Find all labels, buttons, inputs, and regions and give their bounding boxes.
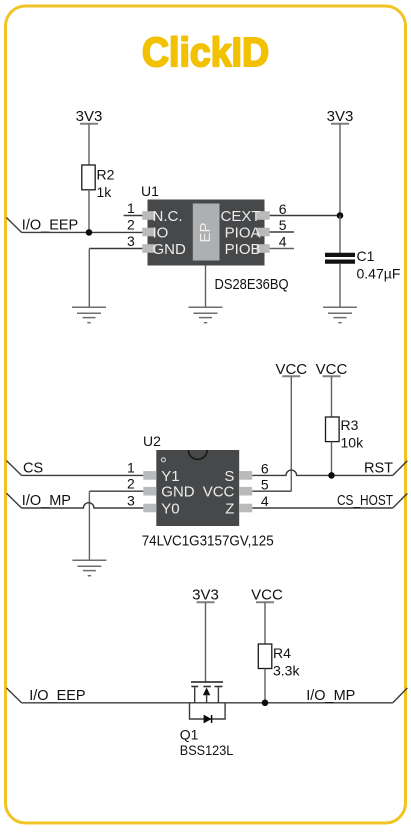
svg-text:74LVC1G3157GV,125: 74LVC1G3157GV,125: [142, 532, 274, 549]
capacitor C1: [325, 248, 400, 281]
svg-text:PIOA: PIOA: [225, 224, 261, 241]
wire EP to ground: [205, 266, 207, 308]
pin1 marker dot U2: [161, 458, 165, 462]
svg-text:1: 1: [127, 200, 135, 216]
wire I/O_EEP to I/O_MP main line: [22, 702, 393, 704]
svg-text:4: 4: [261, 493, 269, 509]
svg-text:GND: GND: [153, 241, 187, 258]
node I/O_MP (left label, section 2): [7, 493, 71, 509]
svg-text:Y1: Y1: [161, 468, 179, 485]
ground (left, section 1): [72, 307, 106, 322]
ground (C1, section 1): [323, 307, 357, 322]
wire I/O_EEP to U1 pin 2: [22, 231, 143, 233]
op-amp U1 body DS28E36BQ: [141, 183, 265, 266]
svg-text:RST: RST: [364, 460, 393, 476]
svg-text:U2: U2: [143, 433, 161, 449]
pin pads U1 right: [257, 211, 270, 253]
svg-text:R2: R2: [97, 167, 115, 183]
node I/O_MP (right label, section 3): [306, 688, 407, 704]
power 3V3 (right, section 1): [327, 108, 354, 125]
pin 1 stub U1: [124, 200, 143, 216]
EP pad U1: [193, 204, 220, 261]
svg-text:EP: EP: [197, 222, 214, 242]
svg-text:6: 6: [261, 461, 269, 477]
svg-text:3: 3: [127, 233, 135, 249]
svg-text:4: 4: [279, 234, 287, 250]
svg-text:2: 2: [127, 217, 135, 233]
svg-text:DS28E36BQ: DS28E36BQ: [215, 276, 289, 293]
svg-text:CS_HOST: CS_HOST: [337, 493, 393, 509]
pin 3 wire U1 to ground: [89, 233, 142, 307]
node RST (right label, section 2): [364, 460, 407, 476]
U1 pin names: [153, 208, 261, 258]
node I/O_EEP (left label, section 1): [7, 218, 79, 234]
junction dot R3 / RST: [328, 472, 335, 479]
svg-text:GND: GND: [161, 484, 195, 501]
svg-text:3V3: 3V3: [192, 587, 219, 604]
power VCC (right, section 2): [316, 361, 348, 378]
transistor Q1 drain lead: [194, 687, 196, 703]
wire 3V3 to R2: [88, 124, 90, 166]
svg-text:1k: 1k: [97, 184, 113, 200]
svg-text:2: 2: [127, 476, 135, 492]
pin 4 stub U1: [270, 234, 294, 250]
svg-text:Y0: Y0: [161, 500, 179, 517]
resistor R3: [326, 417, 365, 451]
svg-text:U1: U1: [141, 183, 159, 199]
svg-text:CS: CS: [23, 460, 43, 476]
wire U2 pin 6 to RST with hop: [252, 461, 392, 477]
wire R4 to I/O_MP net: [264, 669, 266, 703]
svg-text:BSS123L: BSS123L: [180, 742, 234, 758]
svg-text:5: 5: [261, 476, 269, 492]
svg-text:C1: C1: [357, 248, 375, 264]
wire U2 pin 4 to CS_HOST: [252, 493, 392, 509]
wire U1 pin 6 to C1 node: [270, 201, 340, 217]
junction dot pin6 / C1: [337, 212, 344, 219]
wire VCC to R3: [331, 376, 333, 417]
pin pads U2 right: [239, 471, 252, 512]
wire CS to U2 pin 1: [22, 459, 144, 475]
pin pads U1 left: [142, 211, 155, 253]
wire R2 to I/O_EEP net: [88, 190, 90, 233]
wire U2 pin 2 to ground: [89, 476, 143, 561]
svg-text:0.47µF: 0.47µF: [357, 265, 401, 281]
svg-text:3: 3: [127, 492, 135, 508]
svg-text:CEXT: CEXT: [220, 208, 260, 225]
svg-text:10k: 10k: [341, 435, 365, 451]
notch U2: [188, 450, 207, 459]
node CS (left label, section 2): [7, 460, 44, 476]
svg-text:IO: IO: [153, 224, 169, 241]
wire VCC to R4: [264, 602, 266, 644]
svg-text:ClickID: ClickID: [142, 29, 269, 75]
svg-text:R4: R4: [273, 645, 291, 661]
svg-text:VCC: VCC: [251, 587, 283, 604]
ground (section 2): [72, 560, 106, 575]
wire I/O_MP to U2 pin 3 with hop: [22, 492, 144, 508]
body diode loop Q1: [190, 703, 226, 724]
svg-text:I/O_MP: I/O_MP: [22, 493, 71, 509]
svg-text:R3: R3: [341, 417, 359, 433]
svg-text:3V3: 3V3: [76, 108, 103, 125]
wire junction to C1: [339, 216, 341, 253]
svg-text:PIOB: PIOB: [225, 241, 261, 258]
svg-text:6: 6: [279, 201, 287, 217]
wire 3V3 down to junction: [339, 124, 341, 216]
transistor Q1 body arrow: [203, 688, 210, 703]
junction dot I/O_EEP / R2: [86, 229, 93, 236]
svg-text:3V3: 3V3: [327, 108, 354, 125]
U2 pin names: [161, 468, 234, 518]
transistor Q1 gate: [191, 682, 223, 687]
svg-text:I/O_EEP: I/O_EEP: [22, 218, 78, 234]
svg-text:VCC: VCC: [316, 361, 348, 378]
power VCC (section 3): [251, 587, 283, 604]
transistor Q1 source lead: [217, 687, 219, 703]
node CS_HOST (right label, section 2): [337, 493, 407, 509]
svg-text:3.3k: 3.3k: [273, 663, 300, 679]
wire 3V3 to Q1 gate: [205, 602, 207, 681]
transistor Q1 labels: [180, 727, 234, 759]
wire C1 to ground: [339, 264, 341, 308]
resistor R2: [82, 165, 115, 200]
wire VCC to U2 pin 5: [252, 376, 291, 491]
junction dot R4 / I/O_MP: [262, 700, 269, 707]
power 3V3 (section 3): [192, 587, 219, 604]
wire R3 to RST net: [331, 442, 333, 476]
pin pads U2 left: [143, 471, 156, 512]
svg-text:I/O_MP: I/O_MP: [306, 688, 355, 704]
svg-text:N.C.: N.C.: [153, 208, 183, 225]
power VCC (left, section 2): [275, 361, 307, 378]
transistor U2 body 74LVC1G3157: [143, 433, 239, 526]
svg-text:I/O_EEP: I/O_EEP: [29, 688, 85, 704]
svg-text:Q1: Q1: [180, 727, 199, 743]
svg-text:1: 1: [127, 459, 135, 475]
node I/O_EEP (left label, section 3): [7, 688, 86, 704]
ground (EP, section 1): [189, 307, 223, 322]
svg-text:VCC: VCC: [275, 361, 307, 378]
pin 5 stub U1: [270, 217, 294, 233]
svg-text:5: 5: [279, 217, 287, 233]
svg-text:S: S: [224, 468, 234, 485]
power 3V3 (left, section 1): [76, 108, 103, 125]
resistor R4: [258, 644, 300, 679]
svg-text:Z: Z: [225, 500, 234, 517]
svg-text:VCC: VCC: [203, 484, 235, 501]
